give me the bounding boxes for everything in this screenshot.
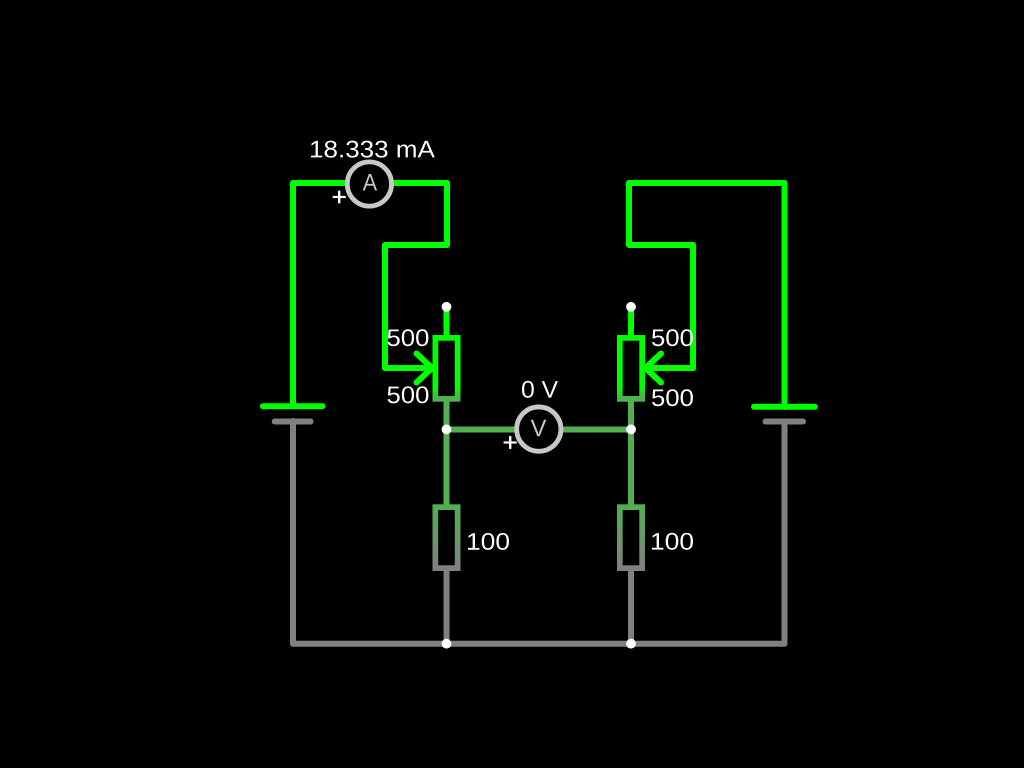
wire left outer vertical (battery + to top row): [293, 183, 296, 406]
wire top right horizontal: [629, 183, 785, 407]
potentiometer R1 (left, 500/500): [435, 307, 457, 430]
label voltmeter plus polarity: [504, 436, 517, 448]
label voltmeter reading 0 V: [522, 381, 558, 398]
resistor R4 (right 100): [620, 430, 642, 644]
label R4 100: [652, 533, 693, 550]
battery V2 (right source): [754, 407, 815, 422]
ammeter U1: [347, 162, 391, 206]
wire right ground return: [631, 422, 785, 644]
wiper arrow of R1: [385, 354, 432, 383]
node mid junction right: [626, 425, 636, 435]
potentiometer R2 (right, 500/500): [620, 307, 642, 430]
label R2 lower 500: [652, 389, 693, 406]
label R2 upper 500: [652, 329, 693, 346]
label R1 upper 500: [388, 329, 429, 346]
voltmeter U2: [517, 407, 561, 451]
battery V1 (left source): [263, 406, 323, 421]
wire right inner path (top row to wiper): [629, 183, 693, 368]
node R2 top post: [626, 302, 636, 312]
label ammeter plus polarity: [333, 191, 346, 203]
node R1 top post: [442, 302, 452, 312]
node mid junction left: [442, 425, 452, 435]
label R3 100: [468, 533, 509, 550]
label R1 lower 500: [388, 386, 429, 403]
node bottom junction left: [442, 639, 452, 649]
wire bottom middle: [447, 641, 632, 647]
wire left inner path (ammeter to wiper): [385, 183, 447, 368]
wire ammeter row horizontal: [293, 180, 447, 186]
wire left ground return: [293, 421, 447, 644]
label ammeter reading 18.333 mA: [311, 141, 435, 158]
wire voltmeter row horizontal: [447, 427, 631, 433]
wiper arrow of R2: [646, 354, 694, 383]
resistor R3 (left 100): [435, 430, 457, 644]
node bottom junction right: [626, 639, 636, 649]
